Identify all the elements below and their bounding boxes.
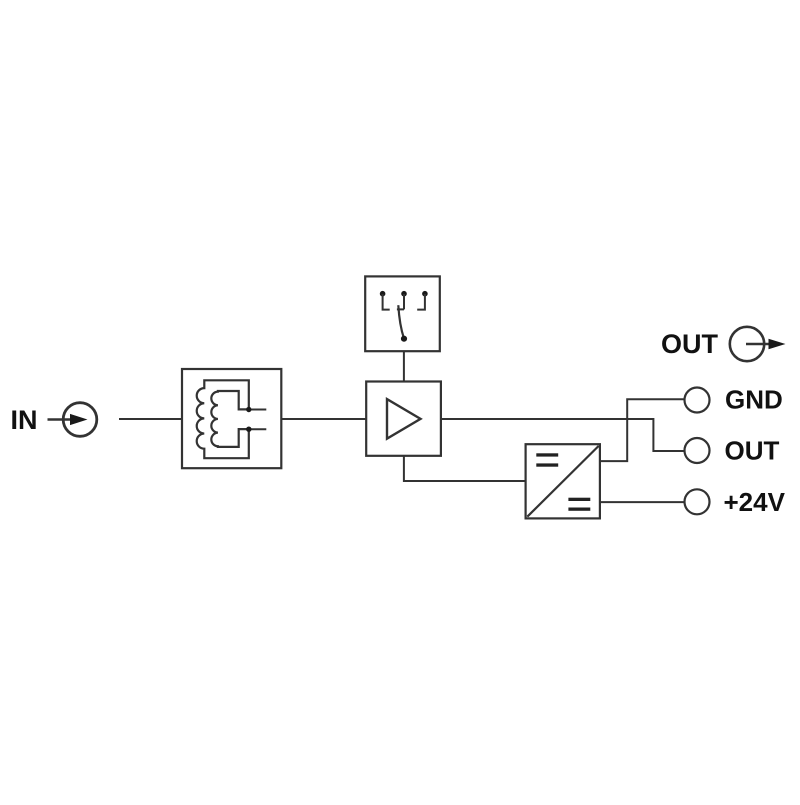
input terminal (circle with arrow) (48, 403, 97, 437)
transformer tap junction dot lower (246, 427, 251, 432)
wire switch to amplifier (403, 351, 405, 381)
svg-text:GND: GND (725, 384, 783, 414)
wire DC/DC to +24V terminal (600, 501, 684, 503)
wire transformer to amplifier (281, 418, 366, 420)
transformer secondary winding (inner loop) (211, 391, 248, 447)
wire IN to transformer (119, 418, 182, 420)
svg-text:+24V: +24V (724, 487, 786, 517)
DC/DC converter box (526, 444, 600, 518)
transformer tap junction dot upper (246, 407, 251, 412)
output signal terminal (circle with arrow) (730, 327, 786, 361)
transformer primary winding (outer loop) (197, 380, 249, 458)
amplifier box (366, 382, 441, 456)
DC/DC lower equals bars (568, 498, 590, 511)
wire DC/DC to GND terminal (600, 399, 684, 461)
wire amplifier bottom to DC/DC (404, 456, 526, 481)
switch contact right (417, 291, 428, 310)
switch box (365, 276, 440, 351)
transformer tap stub lower (249, 428, 266, 430)
svg-text:IN: IN (11, 405, 38, 435)
svg-text:OUT: OUT (725, 435, 780, 465)
svg-text:OUT: OUT (661, 329, 719, 359)
GND terminal circle (685, 388, 710, 413)
switch contact middle (397, 291, 407, 309)
DC/DC upper equals bars (536, 453, 558, 466)
transformer tap stub upper (249, 409, 266, 411)
DC/DC diagonal (527, 446, 598, 517)
wire amplifier output to OUT terminal (441, 419, 684, 451)
+24V terminal circle (685, 489, 710, 514)
amplifier triangle (387, 399, 421, 439)
switch contact left (380, 291, 390, 310)
isolation transformer box (182, 369, 281, 468)
switch lever (398, 305, 404, 339)
OUT terminal circle (685, 438, 710, 463)
switch pivot dot (401, 336, 407, 342)
